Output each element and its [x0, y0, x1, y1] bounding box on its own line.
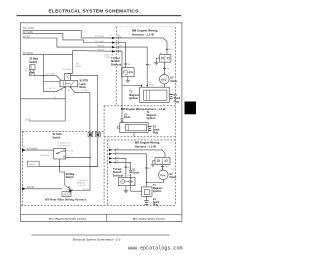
svg-text:Harness - L3 W: Harness - L3 W [135, 144, 156, 148]
wire row 4 to connector [73, 50, 112, 53]
Y1#2 connector tick [124, 166, 127, 168]
relay to B1 connector wire [71, 87, 90, 132]
B1 wire down to S1 [73, 137, 91, 191]
svg-text:SE 5 - Engine Ignition Circuit: SE 5 - Engine Ignition Circuitry [133, 218, 166, 221]
A2 ground [154, 58, 159, 64]
svg-text:bk: bk [128, 167, 130, 169]
bus to relay coil pin [44, 81, 61, 83]
dashed SE5 top [108, 139, 176, 141]
arrow row3 [112, 46, 116, 49]
svg-text:Stator: Stator [169, 176, 176, 179]
magneto 2 bottom stub [133, 132, 135, 136]
T1 feed tick [145, 167, 148, 169]
svg-text:Harness - L1 W: Harness - L1 W [132, 32, 154, 36]
title underline [17, 15, 182, 16]
junction dot V1 wire [147, 85, 148, 86]
splice box lower left [27, 161, 39, 166]
E3 Spark Plug [148, 125, 160, 134]
connector ticks at dashed edge (top) [117, 37, 119, 53]
svg-text:SC RedW: SC RedW [46, 73, 55, 75]
svg-text:W2 Rear Main Wiring Harness: W2 Rear Main Wiring Harness [45, 197, 87, 201]
svg-text:817 GnBk: 817 GnBk [95, 41, 104, 43]
micro labels near connectors (top) [94, 35, 122, 59]
svg-text:807 Ye: 807 Ye [49, 88, 56, 90]
dashed top edge [116, 26, 175, 28]
Y1 connector tick [124, 63, 127, 65]
svg-text:Magneto: Magneto [153, 187, 163, 190]
svg-text:Plug: Plug [153, 132, 159, 135]
svg-text:www.epcatalogs.com: www.epcatalogs.com [128, 245, 183, 251]
wire 1 (top label row to connector row 1) [23, 31, 112, 38]
relay top right wire to B2 connector [70, 76, 97, 133]
svg-text:86: 86 [68, 90, 70, 92]
G2 Stator (SE5) [159, 170, 177, 180]
S1 feed wire [26, 149, 54, 151]
row3 to Y1 solenoid2 [113, 158, 126, 177]
E4 Spark Plug (top) [169, 94, 181, 103]
svg-text:53 GnWh: 53 GnWh [62, 69, 70, 71]
magneto 2 box [117, 123, 148, 133]
svg-text:G17 GnWh: G17 GnWh [94, 36, 104, 38]
svg-text:Rd: Rd [127, 175, 130, 177]
dashed W2 left edge [22, 131, 24, 205]
wire 840 feed (to relay and connector row 4) [23, 54, 73, 56]
junction dot kill branch [141, 85, 142, 86]
arrow row2 [112, 41, 116, 44]
dashed right edge [174, 27, 176, 206]
svg-text:( ) Spanner On: ( ) Spanner On [57, 145, 70, 147]
svg-text:Bk: Bk [54, 99, 56, 101]
svg-text:12b Bk: 12b Bk [29, 164, 35, 166]
kill branch to T1 top [122, 86, 142, 88]
arrow row4 [112, 50, 116, 53]
A2 connector tick [166, 48, 169, 50]
S2 hatched box [62, 192, 71, 197]
footer rule [32, 234, 170, 236]
T1 Magneto Ignition [129, 87, 169, 102]
S2 Mag Switch (lower) [65, 173, 88, 193]
T1#3 spark plug [144, 196, 160, 206]
wire diode to magneto 2 [121, 121, 123, 122]
svg-text:Magneto: Magneto [147, 114, 157, 117]
svg-text:817A: 817A [25, 118, 31, 121]
wire row3 to T1 magneto [116, 47, 148, 87]
stator to magneto wire [163, 84, 165, 87]
row2 to T1 magneto3 [113, 154, 147, 187]
wire row2 to Y1 solenoid [116, 43, 126, 68]
svg-text:Switch: Switch [53, 136, 61, 139]
dashed divider (top box bottom) [104, 105, 175, 107]
A2 diode module (SE5) [155, 158, 170, 165]
SE5 connector arrows [109, 149, 113, 164]
junction dot bus/S2 wire [43, 75, 44, 76]
dashed bottom edge [21, 204, 175, 206]
svg-text:12b Bk: 12b Bk [68, 157, 74, 159]
svg-text:85: 85 [61, 90, 63, 92]
wire row4 kill bus down to section 2 [116, 51, 122, 118]
S2 switch to bus [34, 74, 56, 76]
SE5 micro labels [109, 147, 119, 163]
caption bar divider [106, 214, 108, 221]
wire row1 to A2 diode box [116, 38, 167, 55]
S1 to S2 wire [60, 159, 65, 185]
svg-text:Solenoid: Solenoid [111, 63, 122, 66]
svg-text:C2 YeRd: C2 YeRd [81, 90, 89, 92]
svg-text:800 Bk: 800 Bk [23, 36, 31, 38]
dashed W2 top edge [23, 130, 104, 132]
SE5 wires [113, 150, 165, 191]
svg-text:SE 2 - Magneto Kill & Start In: SE 2 - Magneto Kill & Start Interlock [49, 218, 87, 221]
S1 arrow connector at border [22, 149, 26, 152]
svg-text:Electrical System Schematics: Electrical System Schematics - 2-3 [73, 237, 121, 241]
svg-text:Diode: Diode [124, 117, 131, 119]
svg-text:ELECTRICAL SYSTEM SCHEMATICS: ELECTRICAL SYSTEM SCHEMATICS [49, 8, 139, 13]
Y1#2 ground [123, 186, 128, 193]
G2 Stator [160, 74, 178, 84]
dashed left edge mid (section2 + W2 right) [103, 106, 105, 206]
svg-text:817 GnBk: 817 GnBk [23, 32, 34, 34]
S1 Start Switch [53, 133, 74, 159]
wire 2 (to connector row 2) [23, 34, 112, 43]
vertical bus x43.5 [44, 55, 66, 92]
svg-text:84 GnWh: 84 GnWh [41, 155, 49, 157]
svg-text:( ) Sp Off: ( ) Sp Off [77, 185, 86, 187]
A2 diode module [160, 52, 171, 62]
Y1 Fuel Shutoff Solenoid (SE5) [113, 168, 135, 186]
svg-text:Bk: Bk [25, 71, 27, 73]
dashed section2 bottom [104, 136, 175, 138]
junction dot relay pin A [64, 86, 66, 88]
connector box B2 [96, 132, 101, 136]
wire from splice box to B2 [39, 165, 98, 167]
stator wire tick [163, 67, 166, 69]
svg-text:Ignition: Ignition [147, 117, 156, 120]
lower-left wire 817A [29, 120, 66, 122]
svg-text:822 Wh: 822 Wh [83, 189, 90, 191]
dashed left edge [115, 27, 117, 106]
svg-text:840 Bk: 840 Bk [98, 50, 104, 52]
svg-text:GnWh: GnWh [76, 66, 82, 68]
junction dot relay pin B [70, 86, 72, 88]
svg-text:Plug: Plug [153, 205, 159, 207]
820 wire [26, 188, 62, 190]
lower-left wire 1 [21, 98, 66, 100]
S2 Mag Switch (top left) [25, 58, 38, 76]
svg-text:Spark: Spark [153, 202, 160, 204]
X2 PTO Latch Relay [60, 80, 88, 89]
S2 wire slant into relay [56, 75, 61, 80]
black index tab [185, 102, 197, 115]
stator2 to magneto3 [146, 180, 163, 183]
svg-text:GnWh: GnWh [149, 84, 155, 86]
A2#2 ground [151, 161, 155, 167]
svg-text:Ignition: Ignition [129, 97, 138, 100]
X2 PTO Latch Relay coil [64, 74, 72, 81]
svg-text:Relay: Relay [80, 86, 87, 89]
svg-text:Stator: Stator [170, 80, 177, 83]
SE5 connector ticks [114, 149, 116, 164]
A2#2 to stator wire [161, 165, 163, 171]
svg-text:M8 Engine Wiring Harness - L3: M8 Engine Wiring Harness - L3 W [121, 107, 166, 111]
svg-text:Solenoid: Solenoid [113, 174, 124, 177]
T1 Magneto Ignition (SE5) [142, 185, 163, 196]
caption bar top line [21, 213, 182, 215]
dashed SE5 left edge [107, 140, 109, 205]
row4 to V1 diode2 [113, 162, 131, 170]
schematic outer border [21, 23, 182, 222]
svg-text:800 Bk: 800 Bk [98, 45, 104, 47]
svg-text:Diode: Diode [133, 173, 140, 175]
row1 to A2 box2 [113, 150, 165, 158]
svg-text:Ignition: Ignition [153, 190, 162, 193]
svg-text:X1 M8: X1 M8 [104, 57, 111, 59]
Y1 ground [126, 77, 130, 82]
Y1 Fuel Shutoff Solenoid [111, 57, 134, 77]
820 arrow connector at border [22, 187, 26, 190]
A2 to stator wire [164, 62, 166, 74]
connector box B1 [88, 132, 93, 136]
svg-text:Plug: Plug [174, 100, 180, 103]
svg-text:800 BkWh: 800 BkWh [27, 148, 38, 150]
V1 diode symbol [121, 119, 124, 121]
wire 3 (to connector row 3) [23, 38, 112, 47]
svg-text:840 BkWh: 840 BkWh [23, 53, 34, 55]
arrow row1 [112, 37, 116, 40]
svg-text:Switch: Switch [66, 176, 74, 179]
svg-text:SPL GnWh: SPL GnWh [23, 28, 35, 30]
junction dot stator/row3 [146, 182, 147, 183]
B2 wire down to S2 [90, 137, 98, 167]
svg-text:Switch: Switch [29, 61, 37, 64]
relay pin down [64, 87, 66, 121]
svg-text:C1 Sp: C1 Sp [68, 151, 74, 153]
